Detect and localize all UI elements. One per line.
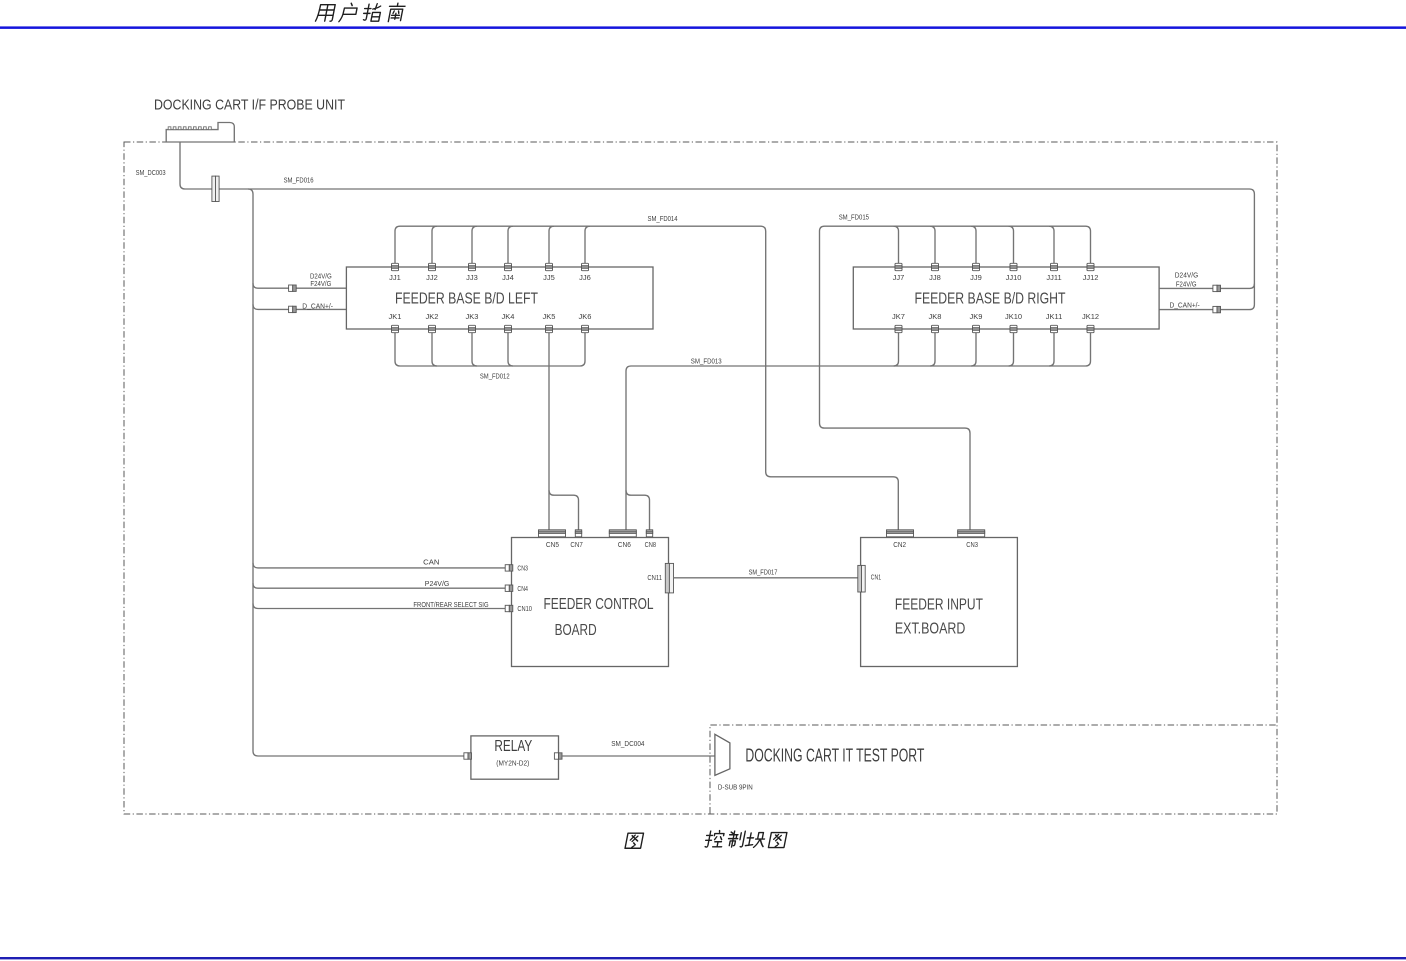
board FEEDER CONTROL BOARD [512, 538, 669, 667]
connector JK1 [392, 325, 399, 332]
svg-text:JK8: JK8 [929, 312, 942, 321]
svg-text:JK7: JK7 [892, 312, 905, 321]
svg-text:BOARD: BOARD [555, 622, 597, 639]
connector JK5 [546, 325, 553, 332]
svg-text:SM_DC003: SM_DC003 [136, 170, 166, 177]
connector JJ7 [895, 263, 902, 270]
connector pair CN4 edge [505, 585, 513, 591]
caption text 控制块图 [704, 831, 787, 848]
connector pair relay right [554, 753, 562, 759]
svg-text:FEEDER INPUT: FEEDER INPUT [895, 597, 983, 614]
connector JK10 [1010, 325, 1017, 332]
connector CN2 wide bar [887, 530, 914, 537]
svg-text:(MY2N-D2): (MY2N-D2) [496, 758, 529, 767]
connector JK12 [1087, 325, 1094, 332]
svg-text:JJ12: JJ12 [1083, 273, 1099, 282]
svg-text:CN5: CN5 [546, 542, 559, 549]
svg-text:JK12: JK12 [1082, 312, 1099, 321]
svg-text:JK6: JK6 [579, 312, 592, 321]
svg-text:JK5: JK5 [543, 312, 556, 321]
connector pair right D24V in-line [1213, 285, 1221, 291]
connector JJ8 [932, 263, 939, 270]
connector CN5 wide bar [539, 530, 566, 537]
svg-text:JJ11: JJ11 [1046, 273, 1061, 282]
connector JJ9 [973, 263, 980, 270]
wire D24V/G F24V/G stub to left board [253, 283, 346, 288]
svg-text:SM_FD017: SM_FD017 [749, 569, 778, 576]
wire SM_DC003 to SM_FD016 main run [180, 142, 1254, 310]
wire bus SM_FD015 from right board JJ connectors to CN3 [820, 226, 1086, 530]
wire FRONT/REAR SELECT SIG stub to control board CN10 [253, 604, 505, 609]
wire JJ9 riser [971, 226, 976, 263]
svg-text:FEEDER CONTROL: FEEDER CONTROL [544, 596, 654, 613]
svg-text:D_CAN+/-: D_CAN+/- [1170, 303, 1201, 310]
svg-text:CAN: CAN [423, 559, 439, 566]
wire P24V/G stub to control board CN4 [253, 583, 505, 588]
svg-text:P24V/G: P24V/G [425, 581, 450, 588]
connector JK9 [973, 325, 980, 332]
connector CN7 small square [575, 530, 581, 537]
wire JK11 drop [1049, 333, 1054, 366]
svg-text:D24V/G: D24V/G [1175, 273, 1198, 280]
connector CN1 tall bars [858, 565, 865, 592]
wire JJ1 riser [395, 226, 400, 263]
connector JJ2 [429, 263, 436, 270]
wire JJ8 riser [930, 226, 935, 263]
wire JJ5 riser [549, 226, 554, 263]
svg-text:JK3: JK3 [466, 312, 479, 321]
svg-text:CN11: CN11 [647, 575, 662, 582]
svg-text:JJ6: JJ6 [579, 273, 591, 282]
svg-text:JJ8: JJ8 [929, 273, 941, 282]
board FEEDER BASE B/D RIGHT [853, 267, 1159, 329]
svg-text:CN8: CN8 [645, 542, 656, 549]
svg-text:FEEDER BASE B/D LEFT: FEEDER BASE B/D LEFT [395, 290, 538, 307]
svg-text:SM_FD016: SM_FD016 [284, 177, 314, 184]
connector CN3 (ext board) wide bar [958, 530, 985, 537]
caption figure label 图 [625, 833, 643, 848]
board FEEDER INPUT EXT.BOARD [861, 538, 1018, 667]
connector JJ10 [1010, 263, 1017, 270]
top blue rule [0, 26, 1406, 29]
wire left spine from SM_FD016 junction down to relay [248, 189, 464, 756]
wire JJ10 riser [1009, 226, 1014, 263]
svg-text:JJ2: JJ2 [426, 273, 438, 282]
svg-text:CN6: CN6 [618, 542, 631, 549]
wire SM_DC004 relay to test port [562, 755, 715, 757]
connector JJ11 [1051, 263, 1058, 270]
wire JK5 drop continuing to CN5 [548, 333, 550, 530]
wire JK10 drop [1009, 333, 1014, 366]
relay box [471, 736, 559, 779]
wire CAN stub to control board CN3 [253, 563, 505, 568]
connector JK8 [932, 325, 939, 332]
svg-text:JK1: JK1 [389, 312, 402, 321]
connector JJ6 [582, 263, 589, 270]
wire JK2 drop [432, 333, 437, 366]
wire JJ6 riser [585, 226, 590, 263]
svg-text:SM_FD014: SM_FD014 [648, 216, 678, 223]
test port dashed border [710, 725, 1277, 814]
connector JJ1 [392, 263, 399, 270]
svg-text:EXT.BOARD: EXT.BOARD [895, 621, 965, 638]
connector pair relay left [464, 753, 472, 759]
svg-text:DOCKING CART I/F PROBE UNIT: DOCKING CART I/F PROBE UNIT [154, 97, 345, 114]
svg-text:JJ7: JJ7 [893, 273, 905, 282]
svg-text:CN3: CN3 [966, 542, 978, 549]
svg-text:CN10: CN10 [517, 606, 532, 613]
connector JK2 [429, 325, 436, 332]
svg-text:JJ3: JJ3 [466, 273, 478, 282]
cable marker SM_DC003 double bar [212, 176, 219, 201]
svg-text:JK4: JK4 [502, 312, 515, 321]
header title 用户指南 [315, 3, 405, 21]
svg-text:D-SUB 9PIN: D-SUB 9PIN [718, 785, 753, 792]
connector JJ3 [469, 263, 476, 270]
svg-text:CN4: CN4 [517, 586, 528, 593]
svg-text:JK10: JK10 [1005, 312, 1022, 321]
board FEEDER BASE B/D LEFT [346, 267, 653, 329]
connector pair CN10 edge [505, 605, 513, 611]
connector JJ5 [546, 263, 553, 270]
svg-text:JK9: JK9 [970, 312, 983, 321]
wire JJ2 riser [432, 226, 437, 263]
svg-text:JK11: JK11 [1046, 312, 1063, 321]
svg-text:SM_FD013: SM_FD013 [691, 358, 722, 365]
wire JJ3 riser [472, 226, 477, 263]
probe unit connector teeth [168, 127, 211, 130]
svg-text:SM_FD012: SM_FD012 [480, 374, 510, 381]
wire SM_FD017 [674, 577, 858, 579]
svg-text:JJ5: JJ5 [543, 273, 555, 282]
wire JJ12 riser [1086, 226, 1091, 263]
connector pair right D_CAN in-line [1213, 306, 1221, 312]
connector JK3 [469, 325, 476, 332]
svg-text:CN1: CN1 [871, 575, 881, 582]
svg-text:F24V/G: F24V/G [310, 281, 331, 288]
svg-text:JJ4: JJ4 [502, 273, 514, 282]
svg-text:CN3: CN3 [517, 566, 528, 573]
connector JK11 [1051, 325, 1058, 332]
svg-text:F24V/G: F24V/G [1176, 282, 1197, 289]
bottom blue rule [0, 957, 1406, 959]
connector D-SUB 9PIN trapezoid [715, 734, 730, 775]
wire D_CAN+/- stub to left board [253, 304, 346, 309]
svg-text:JK2: JK2 [426, 312, 439, 321]
svg-text:DOCKING CART IT TEST PORT: DOCKING CART IT TEST PORT [745, 746, 924, 766]
svg-text:SM_DC004: SM_DC004 [611, 741, 644, 748]
wire JJ7 riser [894, 226, 899, 263]
connector pair left D_CAN in-line [289, 306, 297, 312]
wire JJ11 riser [1049, 226, 1054, 263]
wire branch to CN8 [626, 490, 650, 530]
main docking cart unit dashed border [124, 142, 1277, 814]
connector pair left D24V in-line [289, 285, 297, 291]
wire bus SM_FD012 under left board [400, 365, 580, 367]
connector CN8 small square [646, 530, 652, 537]
connector JK6 [582, 325, 589, 332]
wire JK7 drop [894, 333, 899, 366]
connector JK7 [895, 325, 902, 332]
svg-text:SM_FD015: SM_FD015 [839, 215, 869, 222]
svg-text:CN2: CN2 [893, 542, 906, 549]
svg-text:JJ9: JJ9 [970, 273, 982, 282]
connector JK4 [505, 325, 512, 332]
wire JK9 drop [971, 333, 976, 366]
svg-text:RELAY: RELAY [494, 738, 532, 755]
svg-text:FEEDER BASE B/D RIGHT: FEEDER BASE B/D RIGHT [915, 290, 1066, 307]
wire JK8 drop [930, 333, 935, 366]
connector JJ4 [505, 263, 512, 270]
svg-text:JJ1: JJ1 [389, 273, 401, 282]
wire JJ4 riser [508, 226, 513, 263]
svg-text:CN7: CN7 [570, 542, 582, 549]
svg-text:D24V/G: D24V/G [310, 273, 332, 280]
connector JJ12 [1087, 263, 1094, 270]
wire JK3 drop [472, 333, 477, 366]
svg-text:JJ10: JJ10 [1006, 273, 1022, 282]
wire JK4 drop [508, 333, 513, 366]
wire D24V/G F24V/G stub right board [1159, 284, 1254, 289]
connector CN11 tall bars [665, 563, 673, 593]
svg-text:FRONT/REAR SELECT SIG: FRONT/REAR SELECT SIG [413, 602, 488, 609]
connector CN6 wide bar [609, 530, 636, 537]
wire JK6 drop [580, 333, 585, 366]
probe unit connector body [166, 123, 234, 143]
wire bus SM_FD014 from left board JJ connectors to CN2 [400, 226, 898, 530]
wire branch to CN7 [549, 490, 579, 530]
wire bus SM_FD013 from right board JK connectors to CN6 [626, 366, 1086, 530]
wire JK1 drop [395, 333, 400, 366]
connector pair CN3 edge [505, 565, 513, 571]
svg-text:D_CAN+/-: D_CAN+/- [302, 304, 333, 311]
wire JK12 drop [1086, 333, 1091, 366]
